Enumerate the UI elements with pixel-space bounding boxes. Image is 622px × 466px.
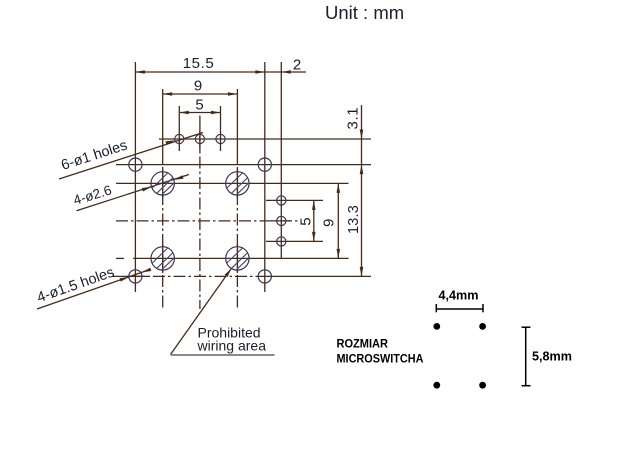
dim line 4,4mm bbox=[436, 308, 483, 310]
arrowhead dim 2 bbox=[281, 70, 291, 74]
underline below wiring area bbox=[171, 354, 275, 356]
row line right hole 1 bbox=[266, 199, 323, 201]
svg-text:Unit : mm: Unit : mm bbox=[325, 2, 404, 23]
dim line 9 right vertical bbox=[337, 183, 339, 258]
arrowhead dim 13.3 bottom bbox=[360, 267, 364, 277]
row line top small holes bbox=[159, 138, 371, 140]
svg-text:15.5: 15.5 bbox=[183, 55, 215, 72]
centerline left hatched column bbox=[162, 89, 164, 152]
microswitch pin dot bottom-right bbox=[479, 382, 486, 389]
svg-text:5: 5 bbox=[297, 217, 314, 225]
svg-text:MICROSWITCHA: MICROSWITCHA bbox=[337, 352, 424, 366]
microswitch pin dot top-left bbox=[433, 323, 440, 330]
leader 4-o2.6 bbox=[77, 175, 190, 211]
hole right-2 (o1) bbox=[277, 216, 286, 225]
hatched hole bottom-left (o2.6) bbox=[151, 247, 174, 270]
svg-text:5: 5 bbox=[195, 97, 203, 114]
corner hole bottom-left (o1.5) bbox=[129, 270, 142, 283]
corner hole top-right (o1.5) bbox=[258, 158, 271, 171]
hole top-2 (o1) bbox=[195, 134, 204, 143]
microswitch pin dot top-right bbox=[479, 323, 486, 330]
dim line 5,8mm bbox=[525, 327, 527, 386]
extension line 5-dim right bbox=[220, 106, 222, 151]
hole top-3 (o1) bbox=[216, 134, 225, 143]
extension line small-hole column x=281 bbox=[280, 62, 282, 258]
svg-text:wiring area: wiring area bbox=[197, 338, 267, 354]
svg-text:9: 9 bbox=[194, 78, 202, 95]
svg-text:ROZMIAR: ROZMIAR bbox=[337, 337, 389, 351]
arrowheads dim 15.5 bbox=[135, 70, 145, 74]
hatched hole bottom-right (o2.6) bbox=[226, 247, 249, 270]
row line bottom hatched holes bbox=[116, 257, 124, 259]
arrowheads dim 9 right bbox=[337, 183, 341, 193]
hatched hole top-right (o2.6) bbox=[226, 172, 249, 195]
svg-text:2: 2 bbox=[293, 57, 301, 74]
hatched hole top-left (o2.6) bbox=[151, 172, 174, 195]
row line right hole 3 bbox=[266, 240, 323, 242]
row line bottom corner holes bbox=[112, 275, 265, 277]
arrowheads dim 3.1 (outside) bbox=[360, 130, 364, 140]
dim line 5 top bbox=[179, 112, 220, 114]
dim line 3.1 / 13.3 vertical bbox=[361, 105, 363, 276]
dim line 2 (extends right) bbox=[265, 71, 306, 73]
arrowheads dim 9 top bbox=[163, 92, 173, 96]
row line top hatched holes bbox=[116, 182, 349, 184]
arrowheads leader 4-o1.5 bbox=[120, 277, 130, 282]
hole right-3 (o1) bbox=[277, 237, 286, 246]
arrowhead leader prohibited bbox=[225, 268, 232, 277]
arrowheads dim 5 right bbox=[312, 200, 316, 210]
arrowheads dim 5 top bbox=[179, 111, 189, 115]
dim line 5 right vertical bbox=[313, 200, 315, 241]
extension line 5-dim left bbox=[178, 106, 180, 151]
leader 6-o1 holes bbox=[59, 133, 203, 180]
dim line 9 top bbox=[163, 93, 238, 95]
microswitch pin dot bottom-left bbox=[433, 382, 440, 389]
arrowheads leader 4-o2.6 bbox=[142, 187, 152, 192]
leader prohibited wiring area bbox=[171, 268, 232, 354]
svg-text:4,4mm: 4,4mm bbox=[439, 288, 479, 302]
extension line right corner column x=265 bbox=[264, 62, 266, 292]
svg-text:9: 9 bbox=[321, 219, 338, 227]
extension line left edge x=135 bbox=[134, 62, 136, 292]
corner hole bottom-right (o1.5) bbox=[258, 270, 271, 283]
svg-text:3.1: 3.1 bbox=[345, 107, 362, 130]
centerline right hatched column bbox=[236, 89, 238, 152]
svg-text:5,8mm: 5,8mm bbox=[532, 349, 572, 363]
leader 4-o1.5 holes bbox=[37, 271, 147, 310]
hole right-1 (o1) bbox=[277, 196, 286, 205]
arrowhead leader 6-o1 bbox=[165, 140, 175, 145]
svg-text:13.3: 13.3 bbox=[346, 205, 362, 234]
hole top-1 (o1) bbox=[175, 134, 184, 143]
row line top corner holes bbox=[116, 164, 371, 166]
centerline middle column bbox=[199, 116, 201, 310]
dim line 15.5 bbox=[135, 71, 264, 73]
corner hole top-left (o1.5) bbox=[129, 158, 142, 171]
solid centermark segments through holes bbox=[162, 169, 164, 198]
horizontal centerline bbox=[116, 220, 300, 222]
